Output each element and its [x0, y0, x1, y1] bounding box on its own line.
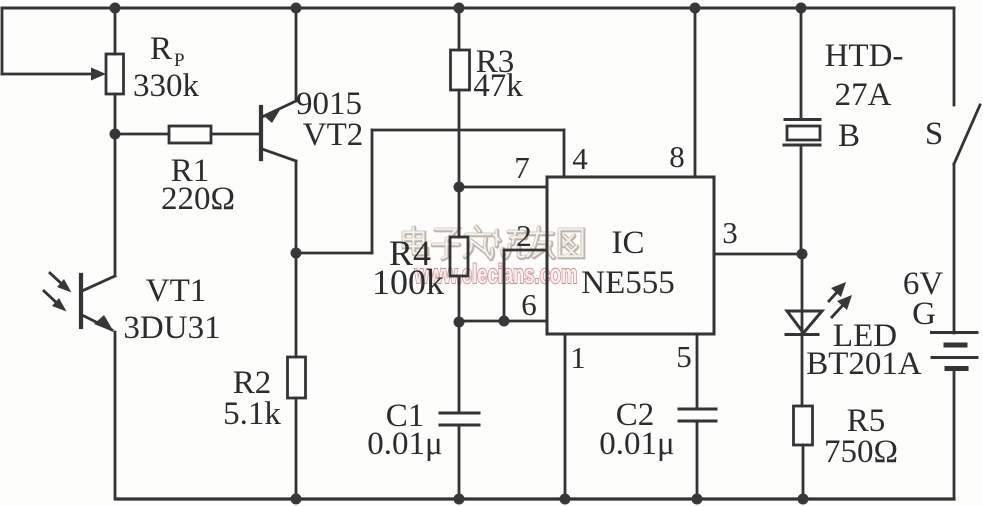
wire pin 3	[714, 253, 802, 256]
svg-text:NE555: NE555	[581, 265, 675, 301]
svg-text:8: 8	[669, 139, 685, 174]
wire bottom ground rail	[116, 497, 954, 500]
resistor R1	[115, 126, 261, 143]
node top rail / R3	[454, 3, 465, 14]
svg-text:BT201A: BT201A	[806, 346, 922, 382]
svg-text:330k: 330k	[133, 68, 200, 104]
phototransistor VT1 3DU31	[81, 134, 115, 499]
LED light arrows	[829, 282, 852, 317]
node bottom rail / C1	[454, 494, 465, 505]
svg-text:4: 4	[572, 141, 588, 176]
wire RP wiper loop left	[2, 8, 106, 81]
node bottom rail / R5	[798, 494, 809, 505]
svg-text:3DU31: 3DU31	[123, 310, 220, 346]
node top rail / VT2	[291, 3, 302, 14]
transistor VT2 9015	[261, 101, 296, 161]
resistor R3	[451, 8, 470, 187]
svg-text:0.01μ: 0.01μ	[367, 426, 442, 462]
wire pin 8	[694, 8, 697, 177]
svg-text:0.01μ: 0.01μ	[599, 426, 674, 462]
node R3 / R4 / pin 7	[454, 182, 465, 193]
node RP / R1 / VT1	[110, 129, 121, 140]
wire pin 7	[459, 186, 547, 189]
wire VT2 emitter to top rail	[295, 8, 298, 101]
buzzer B HTD-27A	[784, 8, 820, 254]
node bottom rail / C2	[692, 494, 703, 505]
resistor R2	[288, 253, 306, 499]
resistor R4	[450, 187, 468, 322]
watermark chinese characters	[403, 226, 583, 259]
node top rail / buzzer	[796, 3, 807, 14]
svg-text:VT1: VT1	[146, 273, 207, 309]
svg-text:G: G	[912, 296, 936, 332]
svg-text:R: R	[150, 31, 172, 67]
node top rail / pin 8	[690, 3, 701, 14]
svg-text:S: S	[925, 116, 943, 152]
svg-text:6: 6	[521, 287, 537, 322]
svg-text:7: 7	[514, 150, 530, 185]
svg-text:47k: 47k	[473, 68, 523, 104]
node top rail / RP	[110, 3, 121, 14]
node pin 3 / buzzer line	[797, 249, 808, 260]
svg-text:B: B	[838, 118, 860, 154]
wire collector node to pin 4	[296, 130, 564, 253]
svg-text:IC: IC	[612, 225, 645, 261]
node pin2 / pin6	[499, 316, 510, 327]
capacitor C1	[440, 322, 479, 499]
svg-text:5.1k: 5.1k	[223, 396, 281, 432]
node R4 / C1 / pin 6	[454, 317, 465, 328]
wire pin 6	[459, 320, 547, 323]
wire top supply rail	[2, 7, 954, 10]
op-amp U1 IC NE555 box	[547, 177, 714, 334]
wire pin 2	[504, 250, 547, 321]
svg-text:3: 3	[722, 215, 738, 250]
switch S	[954, 8, 980, 333]
capacitor C2 and pin 5 wire	[679, 334, 716, 499]
label RP	[150, 31, 185, 71]
LED BT201A	[786, 254, 822, 406]
node VT2 collector / R2 / reset wire	[291, 248, 302, 259]
svg-text:2: 2	[516, 218, 532, 253]
resistor R5	[794, 406, 813, 499]
light arrows into VT1	[44, 273, 72, 312]
svg-text:5: 5	[676, 339, 692, 374]
svg-text:220Ω: 220Ω	[161, 181, 235, 217]
svg-text:VT2: VT2	[303, 117, 364, 153]
svg-text:750Ω: 750Ω	[824, 434, 898, 470]
node bottom rail / pin 1	[560, 494, 571, 505]
wire VT2 collector down	[295, 161, 298, 253]
battery G 6V	[932, 333, 978, 500]
potentiometer RP	[106, 8, 124, 134]
svg-text:100k: 100k	[372, 262, 444, 302]
svg-text:27A: 27A	[835, 77, 892, 113]
svg-text:HTD-: HTD-	[825, 38, 904, 74]
svg-text:1: 1	[570, 340, 586, 375]
wire pin 1	[564, 334, 567, 499]
node bottom rail / R2	[291, 494, 302, 505]
